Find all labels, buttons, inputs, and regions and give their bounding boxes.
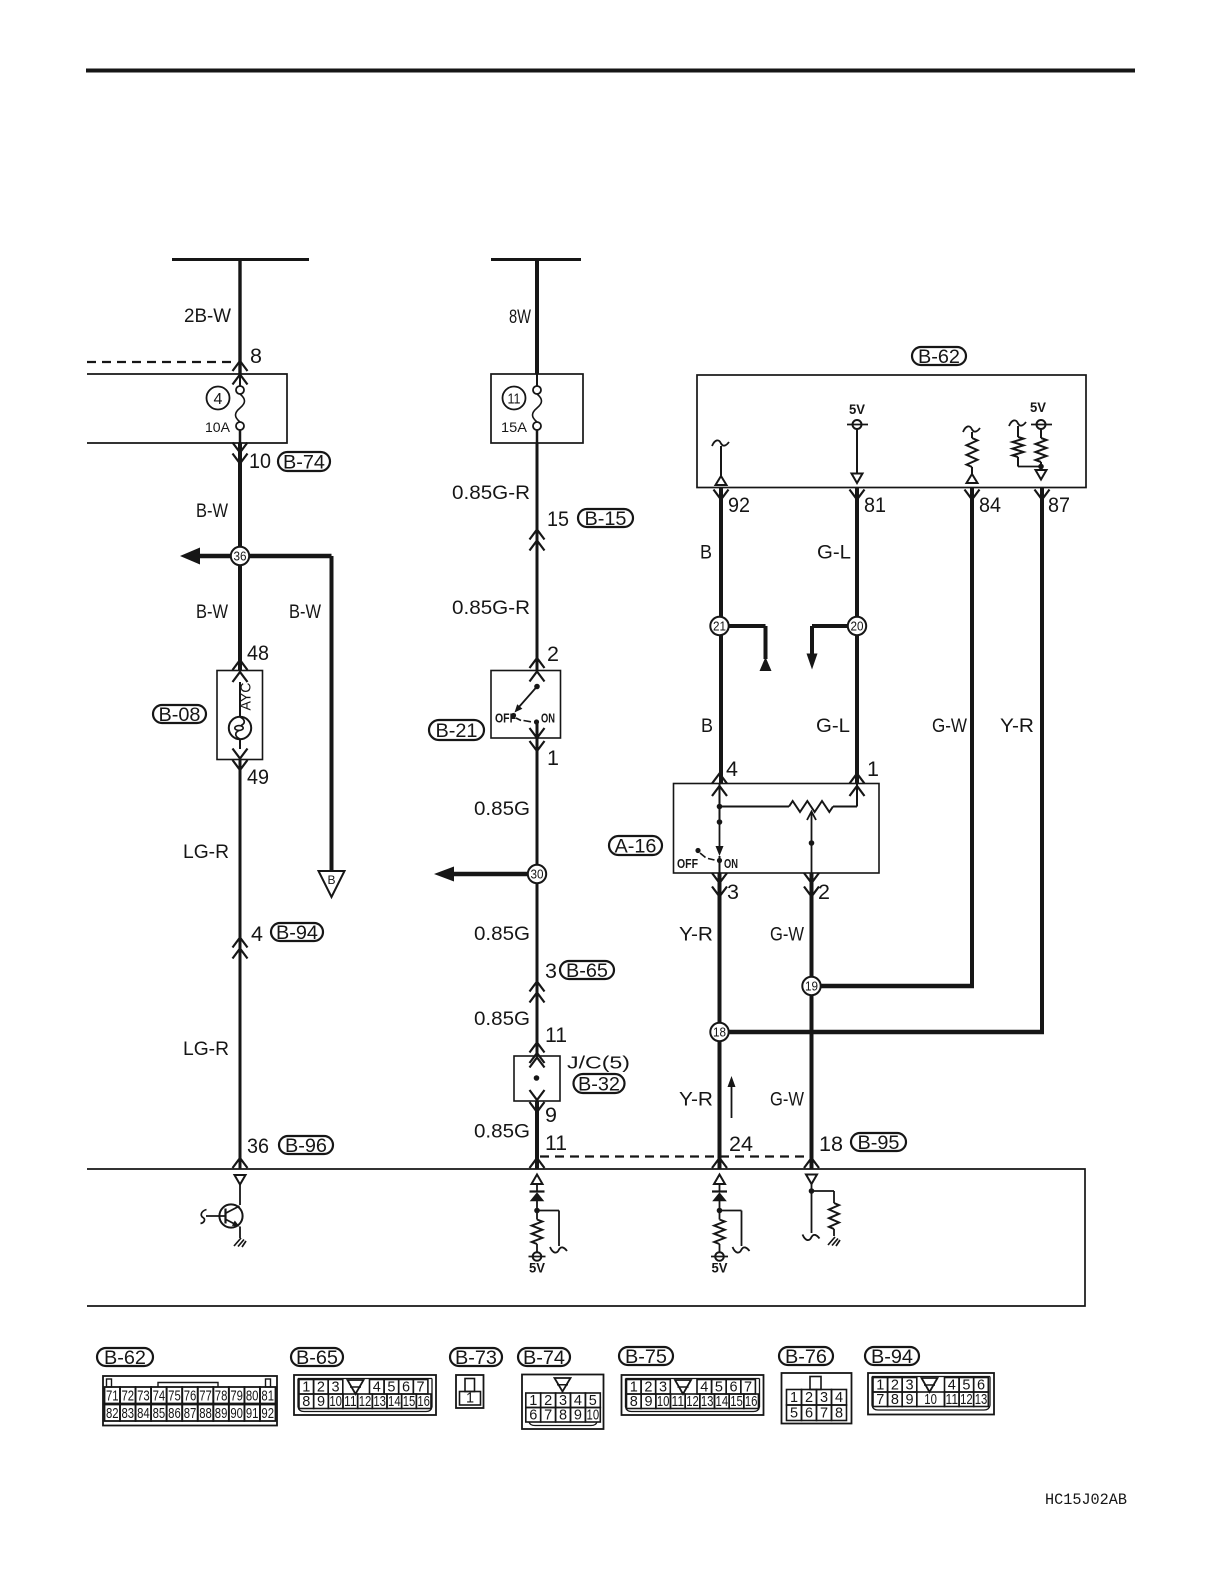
svg-text:4: 4 <box>726 757 738 781</box>
connector B-74 drawing <box>522 1375 604 1430</box>
inline connector chevrons B-65 <box>530 982 545 992</box>
svg-text:B-15: B-15 <box>585 509 627 530</box>
svg-text:12: 12 <box>960 1392 973 1408</box>
svg-text:A-16: A-16 <box>615 837 657 858</box>
connector ref B-08 <box>153 705 206 723</box>
svg-text:15A: 15A <box>501 419 528 435</box>
A-16 switch lever <box>719 822 721 846</box>
svg-text:B-65: B-65 <box>296 1348 338 1369</box>
svg-text:49: 49 <box>247 765 269 789</box>
svg-text:0.85G-R: 0.85G-R <box>452 598 530 619</box>
svg-text:3: 3 <box>727 880 739 904</box>
svg-text:0.85G: 0.85G <box>474 1122 530 1143</box>
svg-text:14: 14 <box>388 1394 401 1410</box>
connector chevrons A-16 pins 3 and 2 <box>712 873 727 883</box>
svg-text:83: 83 <box>122 1406 135 1422</box>
connector ref B-95 <box>851 1133 906 1151</box>
fuse number circle 4 <box>207 387 230 410</box>
junction circle 21 <box>710 617 728 635</box>
junction circle 20 <box>848 617 866 635</box>
B-62 pin 84 internal pull resistor <box>963 426 980 432</box>
svg-text:10A: 10A <box>205 419 231 435</box>
svg-text:1: 1 <box>547 746 559 770</box>
power bus bar middle <box>491 258 581 261</box>
svg-text:7: 7 <box>820 1406 828 1422</box>
svg-text:13: 13 <box>701 1394 714 1410</box>
svg-text:0.85G: 0.85G <box>474 924 530 945</box>
svg-text:B-94: B-94 <box>871 1347 913 1368</box>
svg-text:11: 11 <box>672 1394 685 1410</box>
svg-text:71: 71 <box>106 1389 119 1405</box>
svg-text:24: 24 <box>729 1132 753 1156</box>
svg-text:86: 86 <box>168 1406 181 1422</box>
svg-text:92: 92 <box>728 493 750 517</box>
svg-text:11: 11 <box>508 392 521 408</box>
svg-text:13: 13 <box>975 1392 988 1408</box>
svg-text:B-94: B-94 <box>276 923 318 944</box>
ECU input pin 11 diode clamp to 5V <box>532 1175 543 1185</box>
svg-text:5: 5 <box>790 1406 798 1422</box>
lamp symbol <box>239 682 241 717</box>
A-16 internal wiring <box>719 784 721 823</box>
svg-text:81: 81 <box>864 493 886 517</box>
svg-text:LG-R: LG-R <box>183 842 229 863</box>
svg-text:91: 91 <box>246 1406 259 1422</box>
ground triangle B <box>319 871 345 897</box>
svg-text:Y-R: Y-R <box>1000 716 1034 737</box>
svg-text:15: 15 <box>547 507 569 531</box>
connector chevrons pin 10 <box>233 443 248 453</box>
B-62 pin 92 internal output <box>712 440 729 446</box>
connector B-75 drawing <box>622 1375 764 1415</box>
connector ref B-75 bottom <box>619 1347 673 1365</box>
AYC indicator lamp box B-08 <box>217 671 263 760</box>
svg-text:G-W: G-W <box>770 1090 804 1111</box>
svg-text:4: 4 <box>214 391 223 408</box>
svg-text:10: 10 <box>924 1392 937 1408</box>
junction 18 branch <box>720 1030 1045 1035</box>
svg-text:13: 13 <box>373 1394 386 1410</box>
svg-text:B-62: B-62 <box>104 1348 146 1369</box>
dashed link to pin 18 <box>540 1155 808 1157</box>
wire LG-R upper <box>239 760 242 1169</box>
connector ref A-16 <box>609 836 662 855</box>
svg-text:G-W: G-W <box>770 925 804 946</box>
svg-text:87: 87 <box>1048 493 1070 517</box>
connector ref B-73 bottom <box>450 1348 502 1366</box>
connector ref B-62 bottom <box>97 1348 153 1366</box>
svg-text:11: 11 <box>344 1394 357 1410</box>
svg-text:85: 85 <box>153 1406 166 1422</box>
svg-text:B-73: B-73 <box>455 1348 497 1369</box>
ECU box bottom <box>87 1169 1085 1306</box>
svg-text:G-L: G-L <box>816 716 850 737</box>
svg-text:B: B <box>701 716 713 737</box>
junction 30 arrow to other system <box>450 872 537 877</box>
svg-text:B-76: B-76 <box>785 1347 827 1368</box>
svg-text:ON: ON <box>724 856 738 871</box>
svg-text:89: 89 <box>215 1406 228 1422</box>
svg-text:11: 11 <box>545 1023 567 1047</box>
svg-text:B-65: B-65 <box>566 961 608 982</box>
svg-text:LG-R: LG-R <box>183 1039 229 1060</box>
svg-text:84: 84 <box>137 1406 150 1422</box>
connector ref B-94 bottom <box>865 1347 919 1365</box>
connector ref B-15 <box>578 509 633 527</box>
connector chevron into ECU pin 36 <box>233 1158 248 1168</box>
svg-text:0.85G: 0.85G <box>474 799 530 820</box>
svg-text:1: 1 <box>790 1390 798 1406</box>
wire Y-R from pin 87 <box>1040 488 1044 1035</box>
svg-text:HC15J02AB: HC15J02AB <box>1045 1491 1127 1509</box>
dashed branch line at pin 8 <box>87 361 233 363</box>
fuse element F11 <box>536 374 538 387</box>
svg-text:8: 8 <box>250 344 262 368</box>
ECU box B-62 <box>697 375 1086 488</box>
svg-text:B-W: B-W <box>196 602 228 623</box>
connector ref B-76 bottom <box>779 1347 833 1365</box>
svg-text:2: 2 <box>805 1390 813 1406</box>
wire Y-R from pin 3 <box>718 873 722 1169</box>
svg-text:B-95: B-95 <box>858 1133 900 1154</box>
connector B-94 drawing <box>868 1373 994 1415</box>
svg-text:7: 7 <box>876 1392 884 1408</box>
svg-text:B-74: B-74 <box>283 453 325 474</box>
fuse number circle 11 <box>503 387 526 410</box>
junction 19 branch <box>812 984 975 989</box>
svg-text:9: 9 <box>545 1103 557 1127</box>
wire 2B-W vertical <box>238 260 241 375</box>
svg-text:84: 84 <box>979 493 1001 517</box>
connector chevrons pin 8 <box>233 361 248 371</box>
svg-text:77: 77 <box>199 1389 212 1405</box>
svg-text:0.85G-R: 0.85G-R <box>452 483 530 504</box>
svg-text:10: 10 <box>249 449 271 473</box>
inline connector chevrons B-94 <box>233 938 248 948</box>
svg-text:10: 10 <box>657 1394 670 1410</box>
fuse element F4 <box>239 374 241 387</box>
wire G-W from pin 2 <box>810 873 814 1169</box>
svg-text:8: 8 <box>835 1406 843 1422</box>
svg-text:10: 10 <box>329 1394 342 1410</box>
fuse box left (junction block) <box>87 374 287 443</box>
svg-text:12: 12 <box>686 1394 699 1410</box>
svg-text:36: 36 <box>247 1134 269 1158</box>
svg-text:30: 30 <box>531 868 544 882</box>
svg-text:2B-W: 2B-W <box>184 306 231 327</box>
svg-text:B-08: B-08 <box>159 705 201 726</box>
wire 0.85G-R upper <box>536 443 539 671</box>
svg-text:72: 72 <box>122 1389 135 1405</box>
svg-text:G-L: G-L <box>817 543 851 564</box>
junction 36 arrow to other system <box>196 554 332 559</box>
wire 8W vertical <box>535 260 539 375</box>
svg-text:B-75: B-75 <box>625 1347 667 1368</box>
connector ref B-74 <box>278 452 330 471</box>
svg-text:87: 87 <box>184 1406 197 1422</box>
svg-text:B-W: B-W <box>196 501 228 522</box>
junction 21 branch arrow up <box>721 624 766 628</box>
wire B-W upper <box>238 443 242 671</box>
svg-text:J/C(5): J/C(5) <box>567 1053 630 1073</box>
connector chevrons J/C bottom <box>530 1090 545 1100</box>
junction circle 36 <box>231 547 249 565</box>
svg-text:11: 11 <box>946 1392 959 1408</box>
svg-text:21: 21 <box>713 620 726 634</box>
switch B-21 contacts <box>534 684 540 690</box>
connector ref B-62 top <box>912 347 966 365</box>
svg-text:OFF: OFF <box>677 856 698 871</box>
svg-text:10: 10 <box>587 1408 600 1424</box>
svg-text:4: 4 <box>835 1390 843 1406</box>
svg-text:75: 75 <box>168 1389 181 1405</box>
svg-text:9: 9 <box>317 1394 325 1410</box>
transistor Q output <box>219 1204 242 1227</box>
svg-text:18: 18 <box>713 1026 726 1040</box>
signal direction arrow up <box>731 1082 733 1118</box>
wire 0.85G upper <box>536 722 539 1056</box>
svg-text:15: 15 <box>403 1394 416 1410</box>
svg-text:9: 9 <box>574 1408 582 1424</box>
svg-text:3: 3 <box>545 959 557 983</box>
connector ref B-74 bottom <box>518 1348 570 1366</box>
fuse box middle <box>491 374 583 443</box>
junction circle 18 <box>710 1023 728 1041</box>
svg-text:7: 7 <box>544 1408 552 1424</box>
svg-text:B-62: B-62 <box>918 347 960 368</box>
svg-text:36: 36 <box>234 550 247 564</box>
svg-text:B-21: B-21 <box>436 721 478 742</box>
svg-text:76: 76 <box>184 1389 197 1405</box>
svg-text:5V: 5V <box>849 402 865 417</box>
connector chevrons A-16 pins 4 and 1 <box>712 774 727 784</box>
svg-text:20: 20 <box>851 620 864 634</box>
svg-text:80: 80 <box>246 1389 259 1405</box>
junction circle 19 <box>802 977 820 995</box>
svg-text:5V: 5V <box>1030 400 1046 415</box>
inline connector chevrons B-15 <box>530 530 545 540</box>
svg-text:73: 73 <box>137 1389 150 1405</box>
connector B-62 drawing <box>103 1376 277 1426</box>
connector chevrons pin 48 <box>233 660 248 670</box>
connector chevrons J/C <box>530 1043 545 1053</box>
connector chevron into ECU pin 11 <box>530 1158 545 1168</box>
connector ref B-65 <box>560 961 614 979</box>
svg-text:2: 2 <box>818 880 830 904</box>
svg-text:92: 92 <box>261 1406 274 1422</box>
svg-text:B-74: B-74 <box>523 1348 565 1369</box>
svg-text:B-96: B-96 <box>285 1136 327 1157</box>
svg-text:9: 9 <box>644 1394 652 1410</box>
wire G-L from pin 81 <box>855 488 859 784</box>
svg-text:B: B <box>327 873 335 887</box>
svg-text:G-W: G-W <box>932 716 967 737</box>
sensor box A-16 <box>674 784 880 874</box>
svg-text:11: 11 <box>545 1131 567 1155</box>
svg-text:12: 12 <box>359 1394 372 1410</box>
connector ref B-65 bottom <box>291 1348 343 1366</box>
connector B-76 drawing <box>782 1373 852 1424</box>
svg-text:6: 6 <box>529 1408 537 1424</box>
svg-text:OFF: OFF <box>495 711 516 726</box>
connector ref B-32 <box>574 1074 625 1093</box>
svg-text:8: 8 <box>630 1394 638 1410</box>
svg-text:3: 3 <box>820 1390 828 1406</box>
wire G-W from pin 84 <box>970 488 974 989</box>
svg-text:78: 78 <box>215 1389 228 1405</box>
svg-text:B-32: B-32 <box>578 1075 620 1096</box>
junction 20 branch arrow down <box>812 624 857 628</box>
wire 0.85G bottom <box>535 1101 539 1169</box>
svg-text:81: 81 <box>261 1389 274 1405</box>
switch box B-21 <box>491 671 561 739</box>
svg-text:8: 8 <box>891 1392 899 1408</box>
svg-text:1: 1 <box>466 1391 474 1407</box>
junction dot J/C <box>534 1075 540 1081</box>
svg-text:88: 88 <box>199 1406 212 1422</box>
svg-text:19: 19 <box>805 980 818 994</box>
connector chevrons into ECU pins 24 and 18 <box>712 1158 727 1168</box>
transistor emitter ground <box>239 1227 241 1239</box>
A-16 wiper arrow <box>807 812 816 821</box>
svg-text:8W: 8W <box>509 307 531 328</box>
connector chevrons B-62 pins <box>714 490 729 500</box>
svg-text:9: 9 <box>905 1392 913 1408</box>
svg-text:8: 8 <box>302 1394 310 1410</box>
connector ref B-94 <box>271 923 323 941</box>
svg-text:79: 79 <box>230 1389 243 1405</box>
svg-text:16: 16 <box>417 1394 430 1410</box>
svg-text:Y-R: Y-R <box>679 925 713 946</box>
svg-text:90: 90 <box>230 1406 243 1422</box>
junction circle 30 <box>528 865 546 883</box>
svg-text:5V: 5V <box>712 1261 728 1276</box>
svg-text:5V: 5V <box>529 1261 545 1276</box>
svg-text:B-W: B-W <box>289 602 321 623</box>
svg-text:82: 82 <box>106 1406 119 1422</box>
power bus bar left <box>172 258 309 261</box>
svg-text:14: 14 <box>716 1394 729 1410</box>
svg-text:Y-R: Y-R <box>679 1090 713 1111</box>
ECU input pin 24 diode clamp to 5V <box>714 1175 725 1185</box>
svg-text:16: 16 <box>745 1394 758 1410</box>
connector chevrons switch pin 1 <box>530 728 545 738</box>
svg-text:1: 1 <box>867 757 879 781</box>
wire B-W branch down <box>330 556 334 871</box>
A-16 potentiometer resistor <box>789 801 833 812</box>
connector chevrons pin 49 <box>233 749 248 759</box>
page top rule <box>86 69 1135 73</box>
svg-text:4: 4 <box>251 922 263 946</box>
svg-text:15: 15 <box>730 1394 743 1410</box>
connector B-65 drawing <box>294 1375 436 1415</box>
connector B-73 drawing <box>456 1375 484 1408</box>
connector ref B-21 <box>429 720 484 740</box>
svg-text:0.85G: 0.85G <box>474 1009 530 1030</box>
svg-text:6: 6 <box>805 1406 813 1422</box>
connector ref B-96 <box>279 1136 333 1154</box>
svg-text:B: B <box>700 543 712 564</box>
svg-text:8: 8 <box>559 1408 567 1424</box>
svg-text:2: 2 <box>547 642 559 666</box>
wire B from pin 92 <box>719 488 723 784</box>
svg-text:48: 48 <box>247 641 269 665</box>
connector chevrons switch pin 2 <box>530 658 545 668</box>
svg-text:74: 74 <box>153 1389 166 1405</box>
ECU input pin 36 transistor stage <box>235 1175 246 1185</box>
svg-text:ON: ON <box>541 711 555 726</box>
joint connector J/C(5) box <box>514 1056 560 1101</box>
ECU input pin 18 pull-down resistor <box>806 1175 817 1185</box>
svg-text:18: 18 <box>819 1132 843 1156</box>
